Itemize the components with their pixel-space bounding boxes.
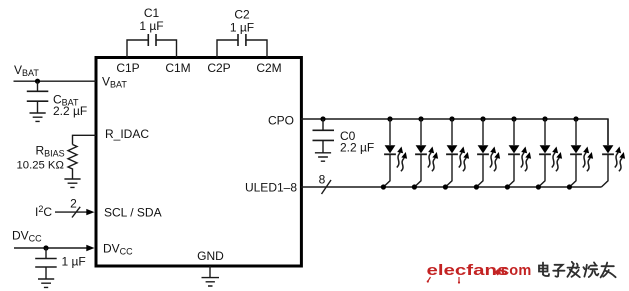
svg-text:1 µF: 1 µF	[62, 255, 86, 269]
svg-text:C1: C1	[144, 6, 160, 20]
junction C0	[320, 116, 325, 121]
bus width slash 8	[322, 180, 332, 194]
svg-text:com: com	[501, 263, 531, 279]
svg-text:RBIAS: RBIAS	[36, 144, 65, 159]
capacitor C0	[313, 119, 335, 153]
svg-text:I2C: I2C	[35, 204, 52, 219]
svg-text:ULED1–8: ULED1–8	[245, 180, 297, 194]
LED ULED5	[505, 116, 531, 189]
logo elecfans.com	[427, 262, 532, 284]
ground below C0	[315, 153, 331, 161]
value label CBAT 2.2uF	[53, 93, 87, 119]
ground below GND pin	[202, 278, 220, 286]
LED ULED6	[536, 116, 562, 189]
value label RBIAS 10.25 KOhm	[17, 144, 65, 172]
wire DVCC to chip	[14, 247, 87, 249]
capacitor 1uF at DVCC	[35, 248, 57, 279]
svg-text:R_IDAC: R_IDAC	[105, 127, 149, 141]
ground below RBIAS	[64, 179, 80, 187]
CJK char dian	[539, 263, 549, 276]
svg-text:elecfans: elecfans	[427, 262, 509, 278]
CJK char shao	[583, 262, 598, 277]
svg-text:C2M: C2M	[256, 61, 281, 75]
LED ULED8	[601, 119, 625, 187]
capacitor C2	[217, 34, 267, 58]
svg-text:C2: C2	[234, 8, 250, 22]
LED ULED3	[443, 116, 469, 189]
svg-text:2: 2	[70, 197, 77, 211]
IC U1 (charge-pump LED driver)	[96, 58, 301, 267]
CJK char you	[601, 263, 616, 278]
svg-text:C2P: C2P	[207, 61, 230, 75]
svg-text:1 µF: 1 µF	[230, 21, 254, 35]
svg-text:8: 8	[319, 173, 326, 187]
ground below CBAT	[30, 113, 46, 121]
wire VBAT to chip	[14, 80, 97, 82]
svg-text:C1P: C1P	[116, 61, 139, 75]
wire I2C to chip	[55, 211, 87, 213]
bus width slash 2	[72, 207, 80, 218]
ground below DVCC cap	[38, 279, 54, 287]
svg-text:CPO: CPO	[268, 113, 294, 127]
value label C2 1uF	[230, 8, 254, 35]
CJK char fa	[567, 262, 579, 277]
CJK char zi	[553, 265, 564, 277]
svg-text:C1M: C1M	[165, 61, 190, 75]
wire GND down	[209, 266, 211, 278]
svg-text:DVCC: DVCC	[12, 229, 42, 244]
svg-text:SCL / SDA: SCL / SDA	[104, 205, 162, 219]
capacitor CBAT	[27, 81, 49, 113]
wire ULED rail	[301, 186, 601, 188]
LED ULED4	[474, 116, 500, 189]
svg-text:10.25 KΩ: 10.25 KΩ	[17, 159, 64, 171]
wire CPO rail	[301, 119, 608, 145]
value label C0 2.2uF	[340, 129, 374, 155]
LED ULED1	[381, 116, 407, 189]
value label C1 1uF	[139, 6, 163, 33]
svg-text:1 µF: 1 µF	[139, 19, 163, 33]
LED ULED2	[412, 116, 438, 189]
wire R_IDAC	[73, 135, 97, 144]
arrowhead into SCL/SDA	[86, 209, 94, 215]
arrowhead into DVCC	[86, 245, 94, 251]
svg-text:2.2 µF: 2.2 µF	[53, 104, 87, 118]
junction on VBAT wire	[35, 79, 40, 84]
capacitor C1	[127, 34, 177, 58]
resistor RBIAS	[68, 145, 77, 180]
junction on DVCC wire	[43, 245, 48, 250]
LED ULED7	[567, 116, 593, 189]
svg-text:VBAT: VBAT	[14, 63, 39, 78]
svg-text:2.2 µF: 2.2 µF	[340, 141, 374, 155]
svg-text:GND: GND	[197, 249, 224, 263]
